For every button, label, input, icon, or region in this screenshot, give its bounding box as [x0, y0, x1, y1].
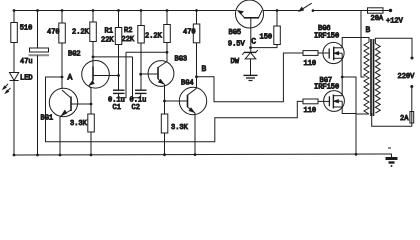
- ground (main, bottom right): [386, 148, 398, 166]
- wire +12V to transformer center tap: [361, 11, 365, 78]
- wire top supply rail: [14, 10, 300, 12]
- svg-text:2.2K: 2.2K: [145, 33, 163, 41]
- svg-text:C2: C2: [132, 104, 140, 112]
- svg-text:110: 110: [304, 60, 317, 68]
- svg-text:R1: R1: [105, 28, 113, 36]
- svg-text:BG2: BG2: [68, 51, 81, 59]
- svg-text:IRF150: IRF150: [314, 33, 339, 41]
- wire BG6 drain to transformer primary top: [342, 38, 369, 48]
- svg-text:22K: 22K: [122, 36, 135, 44]
- svg-text:470: 470: [183, 29, 196, 37]
- svg-text:B: B: [202, 65, 207, 74]
- resistor R1 22K: [115, 11, 122, 91]
- svg-text:DW: DW: [231, 58, 240, 66]
- resistor 110 (upper, BG6 gate): [303, 51, 318, 56]
- svg-text:110: 110: [304, 107, 317, 115]
- LED D1: [3, 73, 19, 156]
- svg-text:3.3K: 3.3K: [171, 124, 189, 132]
- svg-text:510: 510: [20, 25, 33, 33]
- svg-text:2.2K: 2.2K: [72, 29, 90, 37]
- node A: [61, 76, 64, 79]
- zener diode DW: [242, 50, 258, 76]
- resistor 470 (first): [59, 11, 66, 91]
- wire node B to gate resistor of BG6: [197, 53, 304, 102]
- capacitor C1 0.1u: [113, 52, 126, 98]
- svg-text:220V: 220V: [398, 73, 416, 81]
- transistor BG4: [165, 87, 207, 155]
- wire node A to gate resistor of BG7: [46, 77, 304, 142]
- wire transformer primary bottom: [356, 113, 369, 115]
- svg-text:R2: R2: [124, 27, 132, 35]
- ground (zener): [244, 75, 258, 80]
- svg-text:A: A: [68, 74, 73, 83]
- junction dots misc: [90, 46, 252, 105]
- transformer B primary winding: [364, 42, 369, 114]
- svg-text:20A: 20A: [371, 15, 384, 23]
- junction dots bottom rail: [13, 153, 197, 156]
- wire cross-coupling BG3 collector to C1: [126, 51, 167, 53]
- resistor 510: [11, 11, 17, 73]
- wire bottom ground rail: [14, 154, 392, 159]
- svg-text:BG4: BG4: [181, 80, 194, 88]
- wire node X to ground rail: [342, 77, 357, 156]
- svg-text:BG5: BG5: [229, 29, 242, 37]
- svg-text:150: 150: [260, 34, 273, 42]
- transistor BG5: [236, 0, 264, 53]
- resistor 2.2K (second): [164, 11, 171, 62]
- transistor BG3: [141, 61, 174, 114]
- wire BG7 drain up to node X: [341, 77, 343, 96]
- transistor BG1: [49, 88, 91, 155]
- fuse 2A and lower 220V terminal: [372, 85, 414, 126]
- resistor 150: [251, 11, 281, 48]
- resistor 3.3K (right): [161, 114, 168, 155]
- wire BG7 source to ground: [342, 107, 356, 114]
- fuse 20A: [368, 8, 393, 13]
- wire secondary top to 220V terminal: [375, 38, 413, 59]
- resistor R2 22K: [138, 11, 145, 91]
- resistor 3.3K (left): [88, 114, 95, 155]
- svg-text:+12V: +12V: [386, 18, 404, 26]
- svg-text:B: B: [366, 26, 371, 35]
- transformer core: [371, 39, 374, 116]
- MOSFET BG6 IRF150: [318, 42, 344, 63]
- wire BG6 source to node X: [341, 58, 344, 78]
- node B: [195, 75, 198, 78]
- svg-text:LED: LED: [20, 75, 33, 83]
- svg-text:3.3K: 3.3K: [70, 120, 88, 128]
- transformer secondary winding: [375, 44, 380, 114]
- svg-text:2A: 2A: [400, 115, 409, 123]
- capacitor 47u: [29, 11, 50, 156]
- svg-text:C: C: [251, 38, 256, 47]
- resistor 110 (lower, BG7 gate): [303, 99, 318, 104]
- capacitor C2 0.1u: [133, 57, 147, 98]
- svg-text:470: 470: [47, 29, 60, 37]
- svg-text:IRF150: IRF150: [314, 84, 339, 92]
- svg-text:C1: C1: [113, 104, 121, 112]
- switch S: [299, 3, 369, 12]
- junction dots top rail: [13, 9, 279, 12]
- svg-text:BG1: BG1: [41, 115, 54, 123]
- svg-text:BG3: BG3: [175, 56, 188, 64]
- svg-text:22K: 22K: [101, 37, 114, 45]
- resistor 2.2K (first): [90, 11, 97, 67]
- wire cross-coupling BG2 collector to C2: [93, 56, 133, 58]
- svg-text:47u: 47u: [20, 58, 33, 66]
- MOSFET BG7 IRF150: [318, 91, 344, 112]
- resistor 470 (second): [193, 11, 200, 89]
- transistor BG2: [82, 61, 119, 114]
- svg-text:9.5V: 9.5V: [228, 41, 246, 49]
